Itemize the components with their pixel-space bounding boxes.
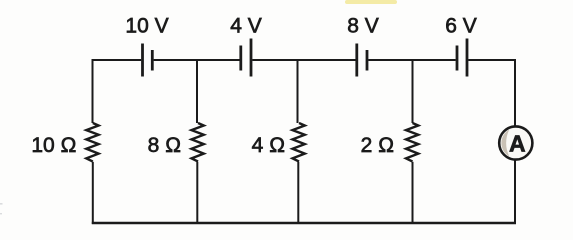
wire between battery 8 V and node D — [368, 59, 412, 61]
battery 10 V — [143, 44, 153, 77]
svg-text:4 Ω: 4 Ω — [252, 134, 286, 157]
wire bottom — [92, 222, 516, 225]
wire right branch lower — [514, 161, 516, 225]
battery 8 V — [357, 44, 367, 77]
ammeter A — [499, 126, 532, 159]
svg-text:10 Ω: 10 Ω — [31, 134, 76, 157]
highlighter smudge top edge — [345, 0, 397, 4]
wire between node D and battery 6 V — [413, 59, 456, 61]
wire branch B lower — [196, 162, 198, 224]
resistor 4 Ω — [293, 123, 305, 162]
resistor 8 Ω — [192, 123, 204, 162]
battery 4 V — [241, 39, 251, 77]
svg-text:6 V: 6 V — [445, 15, 477, 38]
resistor 2 Ω — [406, 123, 418, 162]
svg-text:A: A — [509, 130, 526, 156]
wire top-left segment — [93, 59, 142, 61]
wire between node B and battery 4 V — [197, 59, 240, 61]
resistor 10 Ω — [86, 123, 98, 162]
wire right branch upper — [514, 59, 516, 126]
svg-text:2 Ω: 2 Ω — [361, 134, 395, 157]
wire top-right segment — [468, 59, 515, 61]
faint edge specks — [0, 203, 3, 214]
wire branch C upper — [297, 59, 299, 123]
wire between node C and battery 8 V — [298, 59, 356, 61]
svg-text:8 Ω: 8 Ω — [148, 134, 182, 157]
wire left branch lower — [92, 162, 94, 224]
svg-text:10 V: 10 V — [125, 15, 168, 38]
battery 6 V — [457, 39, 467, 77]
svg-text:4 V: 4 V — [230, 15, 262, 38]
wire between battery 4 V and node C — [252, 59, 297, 61]
wire left branch upper — [92, 59, 94, 123]
wire branch C lower — [297, 162, 299, 224]
wire branch D upper — [412, 59, 414, 123]
svg-text:8 V: 8 V — [347, 15, 379, 38]
wire between battery 10 V and node B — [154, 59, 197, 61]
wire branch B upper — [196, 59, 198, 123]
wire branch D lower — [412, 162, 414, 224]
